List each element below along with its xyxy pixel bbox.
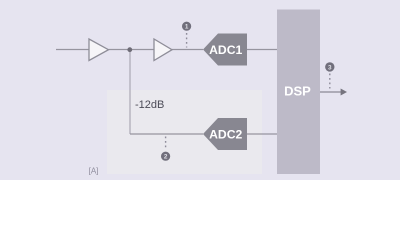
svg-text:[A]: [A] (89, 167, 99, 176)
ADC1 block (203, 34, 247, 66)
wire junction vertical drop (129, 50, 131, 135)
wire input to amp A1 (56, 49, 89, 51)
output arrowhead (341, 89, 347, 96)
node junction dot (127, 47, 132, 52)
svg-text:DSP: DSP (284, 84, 311, 99)
ADC2 block (203, 118, 247, 150)
wire DSP output (320, 91, 341, 93)
svg-text:ADC2: ADC2 (209, 127, 242, 141)
attenuation sub-block box (107, 90, 262, 174)
marker 1 badge (182, 22, 191, 31)
svg-text:ADC1: ADC1 (209, 43, 242, 57)
svg-text:-12dB: -12dB (135, 99, 164, 111)
marker 2 badge (161, 152, 170, 161)
marker 3 badge (325, 62, 334, 71)
amplifier A1 (89, 39, 109, 61)
wire attenuated branch to ADC2 (130, 133, 203, 135)
wire ADC2 to DSP (247, 133, 277, 135)
svg-text:2: 2 (164, 154, 168, 161)
amplifier A2 (154, 39, 172, 61)
wire amp A2 to ADC1 (172, 49, 203, 51)
svg-text:3: 3 (328, 64, 332, 71)
marker 1 dotted leader (186, 33, 188, 48)
wire amp A1 to amp A2 (109, 49, 155, 51)
DSP block (277, 10, 320, 175)
wire ADC1 to DSP (247, 49, 277, 51)
marker 2 dotted leader (165, 137, 167, 151)
svg-text:1: 1 (185, 24, 189, 31)
marker 3 dotted leader (329, 74, 331, 89)
